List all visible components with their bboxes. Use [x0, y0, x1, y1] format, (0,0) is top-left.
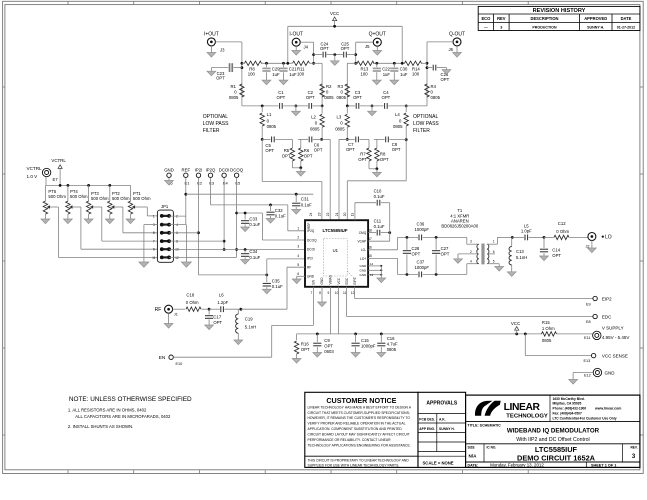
svg-text:3: 3 — [297, 245, 299, 249]
transformer T1 primary winding — [477, 244, 479, 264]
svg-text:0805: 0805 — [337, 95, 347, 100]
pin GND cluster 2 — [360, 269, 383, 273]
wire Q filter rail — [346, 105, 427, 108]
svg-text:16: 16 — [368, 246, 372, 250]
svg-text:VBIAS: VBIAS — [329, 275, 333, 284]
pin numbers 13 14 — [370, 262, 374, 277]
svg-text:E12: E12 — [584, 373, 591, 377]
svg-text:1uF: 1uF — [400, 72, 408, 77]
ground at C22 — [372, 80, 381, 85]
svg-text:Milpitas, CA 95035: Milpitas, CA 95035 — [553, 402, 582, 406]
svg-text:1.0pF: 1.0pF — [521, 228, 532, 233]
wire EDC net — [347, 287, 593, 317]
ground at GND cluster — [377, 266, 386, 283]
svg-text:1.0 V: 1.0 V — [27, 174, 39, 179]
svg-text:—: — — [484, 25, 488, 29]
ground below JP1 right — [181, 262, 191, 267]
svg-text:E2: E2 — [197, 180, 203, 185]
ground between C3 C4 — [368, 106, 377, 116]
svg-text:TITLE: SCHEMATIC: TITLE: SCHEMATIC — [468, 424, 502, 428]
svg-text:OPT: OPT — [358, 157, 367, 162]
svg-text:0805: 0805 — [542, 338, 552, 343]
pin GND cluster 3 — [360, 273, 383, 277]
svg-text:1uF: 1uF — [289, 72, 297, 77]
svg-text:OPT: OPT — [353, 95, 362, 100]
wire pin19 to C10 — [355, 203, 376, 221]
svg-text:C13: C13 — [516, 249, 524, 254]
svg-text:J5: J5 — [365, 44, 370, 49]
svg-text:GND: GND — [164, 167, 174, 172]
ground at PT3 — [84, 219, 93, 224]
potentiometer PT3 — [86, 185, 157, 241]
svg-text:ALL CAPACITORS ARE IN MICROFAR: ALL CAPACITORS ARE IN MICROFARADS, 0402 — [75, 414, 171, 419]
svg-text:REF: REF — [307, 223, 311, 229]
wire VCTRL rail — [46, 177, 131, 187]
svg-text:EIP2: EIP2 — [602, 296, 612, 301]
resistor R16 — [294, 341, 310, 359]
ground at R7 R8 — [373, 169, 382, 177]
svg-text:SHEET 1 OF 1: SHEET 1 OF 1 — [591, 463, 616, 467]
svg-text:GND: GND — [605, 370, 616, 375]
svg-text:REF: REF — [181, 167, 190, 172]
svg-text:4.95V - 5.45V: 4.95V - 5.45V — [602, 335, 630, 340]
svg-text:FILTER: FILTER — [203, 128, 220, 134]
ground at C26 — [442, 68, 451, 75]
svg-text:9: 9 — [153, 248, 155, 252]
svg-text:14: 14 — [370, 262, 374, 266]
svg-text:DATE: DATE — [621, 16, 632, 21]
pin 11 EDC — [343, 277, 349, 295]
svg-text:C19: C19 — [245, 316, 253, 321]
wire J3 to I rail — [215, 42, 243, 106]
customer notice block — [305, 392, 418, 467]
svg-text:6: 6 — [297, 272, 299, 276]
svg-text:VCC SENSE: VCC SENSE — [602, 354, 628, 359]
resistor C12 — [544, 221, 588, 240]
svg-text:PT2: PT2 — [112, 191, 120, 196]
svg-text:OPT: OPT — [341, 46, 350, 51]
capacitor C25 — [333, 41, 355, 57]
svg-text:L2: L2 — [311, 115, 316, 120]
resistor R13 — [357, 61, 374, 76]
svg-text:EDC: EDC — [602, 314, 612, 319]
wire T1 pin5 to ground — [487, 264, 499, 267]
ground below JP1 left — [139, 262, 149, 267]
svg-text:IP2Q: IP2Q — [206, 167, 216, 172]
svg-text:DCOQ: DCOQ — [307, 238, 317, 242]
svg-text:C12: C12 — [558, 221, 566, 226]
svg-text:E13: E13 — [584, 359, 591, 363]
svg-text:500 Ohm: 500 Ohm — [48, 194, 66, 199]
transformer T1 secondary winding — [487, 244, 489, 264]
title text — [468, 424, 638, 468]
svg-text:0805: 0805 — [431, 95, 441, 100]
svg-text:OPT: OPT — [412, 252, 421, 257]
svg-text:12: 12 — [351, 291, 355, 295]
capacitor C32 — [266, 205, 286, 219]
svg-text:LINEAR: LINEAR — [504, 402, 541, 413]
svg-text:GND: GND — [360, 269, 368, 273]
svg-text:2. INSTALL SHUNTS AS SHOWN.: 2. INSTALL SHUNTS AS SHOWN. — [68, 424, 133, 429]
svg-text:1: 1 — [297, 227, 299, 231]
svg-text:C29: C29 — [272, 67, 280, 72]
capacitor C26 — [427, 65, 450, 82]
wire Q filter lower rail — [339, 138, 408, 170]
capacitor C17 — [205, 309, 223, 325]
svg-text:OPT: OPT — [552, 253, 561, 258]
svg-text:E3: E3 — [209, 180, 215, 185]
svg-text:Q+OUT: Q+OUT — [369, 32, 386, 38]
pin 3 DCOI — [297, 245, 315, 252]
svg-text:R2: R2 — [326, 84, 332, 89]
svg-text:24: 24 — [309, 212, 313, 216]
svg-text:1. ALL RESISTORS ARE IN OHMS,: 1. ALL RESISTORS ARE IN OHMS, 0402 — [68, 408, 147, 413]
turret E3 IP2Q — [206, 167, 216, 185]
power flag VCC bottom — [511, 321, 520, 334]
svg-text:100: 100 — [412, 71, 420, 76]
pin 10 VCC — [335, 277, 341, 295]
svg-text:0805: 0805 — [324, 95, 334, 100]
svg-text:DESCRIPTION: DESCRIPTION — [531, 16, 559, 21]
wire T1 pin2 to ground — [458, 254, 479, 259]
svg-text:REVISION HISTORY: REVISION HISTORY — [533, 8, 586, 14]
svg-text:HOWEVER, IT REMAINS THE CUSTOM: HOWEVER, IT REMAINS THE CUSTOMER'S RESPO… — [308, 416, 411, 420]
pin 7 EN — [311, 279, 316, 294]
svg-text:PCB DES.: PCB DES. — [419, 418, 435, 422]
connector J3 I+OUT — [204, 32, 225, 53]
connector J6 Q-OUT — [449, 31, 466, 52]
svg-text:5.1nH: 5.1nH — [516, 255, 527, 260]
svg-text:OPT: OPT — [304, 153, 313, 158]
ground at PT4 — [64, 219, 73, 224]
svg-text:SCALE = NONE: SCALE = NONE — [423, 461, 454, 466]
pin 6 GND — [297, 272, 314, 279]
svg-text:With IIP2 and DC Offset Contro: With IIP2 and DC Offset Control — [516, 437, 589, 443]
wire E12 to ground — [573, 373, 593, 380]
resistor R2 — [320, 84, 334, 100]
wire Q- to pin20 — [347, 140, 406, 221]
svg-text:CUSTOMER NOTICE: CUSTOMER NOTICE — [326, 396, 396, 405]
connector J5 Q+OUT — [365, 32, 386, 49]
optional low pass filter note right — [413, 114, 439, 134]
ground at E12 — [569, 380, 578, 385]
wire I output rail — [242, 62, 314, 65]
svg-text:E4: E4 — [223, 180, 229, 185]
connector J1 RF — [155, 305, 178, 316]
svg-text:NOTE: UNLESS OTHERWISE SPECIFI: NOTE: UNLESS OTHERWISE SPECIFIED — [69, 396, 192, 403]
svg-text:OPT: OPT — [392, 147, 401, 152]
ground at R16 — [292, 359, 301, 364]
ground at C33 — [241, 227, 250, 232]
potentiometer PT1 — [128, 185, 157, 219]
svg-text:1 Ohm: 1 Ohm — [542, 326, 555, 331]
resistor R11 — [293, 61, 310, 76]
wire IP2Q net — [211, 178, 306, 231]
pin 12 EIP2 — [351, 277, 357, 294]
svg-text:C15: C15 — [361, 338, 369, 343]
resistor R5 — [282, 148, 295, 161]
svg-text:PT3: PT3 — [91, 191, 99, 196]
svg-text:C18: C18 — [186, 293, 194, 298]
ground at C9 — [313, 353, 322, 358]
svg-text:LTC Confidential-For Customer: LTC Confidential-For Customer Use Only — [553, 416, 617, 420]
svg-text:4: 4 — [176, 223, 178, 227]
turret E10 EN — [159, 355, 183, 366]
svg-text:EDC: EDC — [345, 277, 349, 284]
resistor R6 — [299, 148, 313, 161]
svg-text:100: 100 — [361, 71, 369, 76]
svg-text:E1: E1 — [185, 180, 191, 185]
potentiometer PT2 — [108, 185, 158, 232]
svg-text:SUNNY H.: SUNNY H. — [439, 427, 455, 431]
ground at C23 — [207, 68, 216, 76]
turret E7 VCTRL — [27, 166, 59, 182]
ground at C19 — [234, 340, 243, 345]
ground at C29 — [262, 80, 271, 85]
svg-text:OPT: OPT — [216, 76, 225, 81]
svg-text:I-OUT: I-OUT — [289, 32, 303, 38]
svg-text:TECHNOLOGY APPLICATIONS ENGINE: TECHNOLOGY APPLICATIONS ENGINEERING FOR … — [308, 443, 411, 447]
ground at C24 C25 midpoint — [330, 55, 339, 66]
wire I filter lower rail — [261, 138, 323, 169]
svg-text:10: 10 — [335, 291, 339, 295]
svg-text:OPT: OPT — [282, 153, 291, 158]
ground at C15 — [351, 353, 360, 358]
svg-text:C11: C11 — [374, 219, 382, 224]
capacitor C2 — [306, 90, 315, 109]
svg-text:A.K.: A.K. — [439, 418, 446, 422]
svg-text:C33: C33 — [249, 217, 257, 222]
svg-text:OPT: OPT — [320, 46, 329, 51]
wire EN net — [173, 287, 313, 357]
capacitor C34 — [241, 249, 261, 260]
svg-text:L3: L3 — [337, 115, 342, 120]
ground at C30 — [390, 80, 399, 85]
svg-text:OPT: OPT — [301, 347, 310, 352]
turret E5 DCOQ — [230, 167, 244, 185]
svg-text:17: 17 — [368, 237, 372, 241]
svg-text:VCAP: VCAP — [358, 240, 367, 244]
svg-text:11: 11 — [343, 291, 347, 295]
svg-text:IP2I: IP2I — [195, 167, 203, 172]
wire VCAP net — [368, 203, 390, 242]
svg-text:500 Ohm: 500 Ohm — [112, 196, 130, 201]
wire J6 to Q rail — [426, 42, 453, 106]
svg-text:22: 22 — [326, 212, 330, 216]
ground at pin 8 — [318, 287, 327, 307]
wire J4 to I rail — [300, 42, 315, 64]
svg-text:GND: GND — [360, 273, 368, 277]
ground at J6 — [453, 46, 462, 57]
svg-text:18: 18 — [368, 228, 372, 232]
revision history table — [478, 6, 640, 30]
capacitor C10 — [374, 189, 390, 206]
svg-text:LO+: LO+ — [360, 257, 366, 261]
resistor R3 — [337, 84, 350, 100]
svg-text:9: 9 — [328, 291, 330, 295]
svg-text:4: 4 — [297, 254, 299, 258]
power flag VCTRL — [51, 158, 66, 185]
svg-text:PT1: PT1 — [133, 191, 141, 196]
svg-text:T1: T1 — [457, 208, 463, 213]
wire DCOI net — [169, 178, 305, 258]
inductor C19 — [237, 309, 239, 314]
svg-text:OPTIONAL: OPTIONAL — [203, 114, 229, 120]
svg-text:C10: C10 — [374, 189, 382, 194]
svg-text:100: 100 — [248, 71, 256, 76]
svg-text:0.1uF: 0.1uF — [374, 194, 385, 199]
svg-text:C22: C22 — [382, 67, 390, 72]
ground at C31 — [292, 210, 301, 215]
ground at C13 — [507, 272, 516, 277]
svg-text:E9: E9 — [586, 303, 591, 307]
svg-text:PRODUCTION: PRODUCTION — [532, 25, 557, 29]
svg-text:1000pF: 1000pF — [415, 227, 430, 232]
svg-text:500 Ohm: 500 Ohm — [91, 196, 109, 201]
svg-text:VCC: VCC — [511, 321, 520, 326]
svg-text:500 Ohm: 500 Ohm — [70, 194, 88, 199]
pin 15 LO+ — [360, 254, 372, 261]
svg-text:C30: C30 — [400, 67, 408, 72]
wire REF net — [169, 178, 313, 225]
svg-text:0603: 0603 — [324, 349, 334, 354]
svg-text:GND: GND — [320, 277, 324, 285]
potentiometer PT5 — [43, 185, 157, 257]
svg-text:5: 5 — [153, 231, 155, 235]
svg-text:J6: J6 — [449, 47, 454, 52]
svg-text:0.1uF: 0.1uF — [275, 214, 286, 219]
svg-text:C14: C14 — [552, 247, 560, 252]
capacitor C27 — [432, 237, 450, 274]
svg-text:REV: REV — [497, 16, 506, 21]
capacitor C16 — [377, 334, 398, 353]
svg-text:DCOI: DCOI — [307, 247, 315, 251]
svg-text:23: 23 — [317, 212, 321, 216]
svg-text:0.1uF: 0.1uF — [272, 284, 283, 289]
svg-text:1: 1 — [493, 240, 495, 244]
turret E11 V SUPPLY — [584, 325, 629, 340]
svg-text:OPT: OPT — [441, 252, 450, 257]
capacitor C5 — [265, 137, 274, 154]
ground at J2 — [588, 241, 597, 253]
approvals block — [418, 392, 466, 467]
svg-text:EN: EN — [312, 279, 316, 284]
capacitor C28 — [403, 237, 421, 274]
turret E4 DCOI — [219, 167, 230, 185]
resistor R14 — [405, 61, 422, 76]
svg-text:L4: L4 — [395, 112, 400, 117]
svg-text:C9: C9 — [324, 338, 330, 343]
svg-text:C16: C16 — [387, 336, 395, 341]
svg-text:C27: C27 — [441, 246, 449, 251]
svg-text:0805: 0805 — [335, 127, 345, 132]
svg-text:R3: R3 — [338, 84, 344, 89]
pin 1 IP2Q — [297, 227, 314, 234]
svg-text:GND: GND — [360, 264, 368, 268]
svg-text:CIRCUIT THAT MEETS CUSTOMER-SU: CIRCUIT THAT MEETS CUSTOMER-SUPPLIED SPE… — [308, 411, 410, 415]
svg-text:Monday, February 13, 2012: Monday, February 13, 2012 — [490, 462, 544, 467]
capacitor C30 — [390, 63, 408, 80]
pin 4 IP2I — [297, 254, 312, 261]
capacitor C8 — [386, 137, 401, 152]
svg-text:SUPPLIED FOR USE WITH LINEAR T: SUPPLIED FOR USE WITH LINEAR TECHNOLOGY … — [308, 464, 400, 468]
svg-text:R6: R6 — [304, 148, 310, 153]
svg-text:R16: R16 — [301, 341, 309, 346]
power flag VCC top — [330, 11, 339, 26]
wire J5 to Q rail — [354, 42, 373, 64]
capacitor C1 — [277, 90, 286, 109]
svg-text:THIS CIRCUIT IS PROPRIETARY TO: THIS CIRCUIT IS PROPRIETARY TO LINEAR TE… — [308, 459, 410, 463]
svg-text:OPT: OPT — [306, 95, 315, 100]
svg-text:0.1uF: 0.1uF — [249, 255, 260, 260]
svg-text:5.1nH: 5.1nH — [245, 324, 256, 329]
svg-text:0 Ohm: 0 Ohm — [556, 229, 569, 234]
svg-text:6: 6 — [493, 250, 495, 254]
turret E9 EIP2 — [586, 296, 612, 306]
capacitor C7 — [346, 137, 358, 152]
svg-text:OPT: OPT — [265, 148, 274, 153]
svg-text:OPT: OPT — [441, 77, 450, 82]
ground at C17 — [205, 325, 214, 330]
resistor R15 — [542, 320, 593, 343]
notes text — [68, 396, 192, 429]
svg-text:LINEAR TECHNOLOGY HAS MADE A B: LINEAR TECHNOLOGY HAS MADE A BEST EFFORT… — [308, 405, 412, 409]
svg-text:1uF: 1uF — [272, 72, 280, 77]
svg-text:LOW PASS: LOW PASS — [413, 121, 439, 127]
svg-text:VERIFY PROPER AND RELIABLE OPE: VERIFY PROPER AND RELIABLE OPERATION IN … — [308, 422, 406, 426]
svg-text:OPT: OPT — [382, 95, 391, 100]
svg-text:7: 7 — [311, 291, 313, 295]
svg-text:www.linear.com: www.linear.com — [594, 407, 621, 411]
svg-text:EN: EN — [159, 355, 166, 361]
svg-text:J4: J4 — [304, 44, 309, 49]
svg-text:SUNNY H.: SUNNY H. — [587, 25, 604, 29]
ground at PT1 — [126, 219, 135, 224]
svg-text:J3: J3 — [220, 48, 225, 53]
op-amp U1 LTC5585IUF body — [305, 220, 368, 287]
svg-text:0 Ohm: 0 Ohm — [186, 300, 199, 305]
ground at T1 pin5 — [495, 267, 504, 272]
svg-text:N/A: N/A — [469, 454, 478, 459]
svg-text:APPLICATION. COMPONENT SUBSTIT: APPLICATION. COMPONENT SUBSTITUTION AND … — [308, 427, 403, 431]
turret E2 IP2I — [195, 167, 203, 185]
connector J4 I-OUT — [289, 32, 308, 50]
capacitor C35 — [263, 275, 283, 289]
transformer T1 core — [482, 244, 484, 265]
ground between C1 C2 — [292, 106, 301, 116]
pin GND cluster 1 — [360, 264, 383, 268]
ground at J3 — [207, 46, 216, 57]
pin 5 RF — [297, 263, 311, 270]
svg-text:VCC: VCC — [337, 277, 341, 284]
svg-text:Phone: (408)432-1900: Phone: (408)432-1900 — [553, 407, 587, 411]
svg-text:1000pF: 1000pF — [415, 265, 430, 270]
capacitor C23 — [211, 63, 242, 80]
capacitor C6 — [309, 137, 323, 153]
connector J2 LO — [586, 233, 612, 249]
capacitor L6 — [209, 293, 242, 313]
inductor L3 — [335, 106, 349, 139]
svg-text:C36: C36 — [417, 222, 425, 227]
ground at E6 — [165, 178, 174, 186]
svg-text:LTC5585IUF: LTC5585IUF — [322, 228, 347, 233]
resistor R8 — [245, 61, 262, 76]
svg-text:FILTER: FILTER — [413, 128, 430, 134]
resistor R8 filter — [375, 148, 389, 162]
svg-text:R8: R8 — [380, 151, 386, 156]
wire T1 pin1 to LO out — [487, 236, 514, 244]
title block — [466, 395, 640, 467]
